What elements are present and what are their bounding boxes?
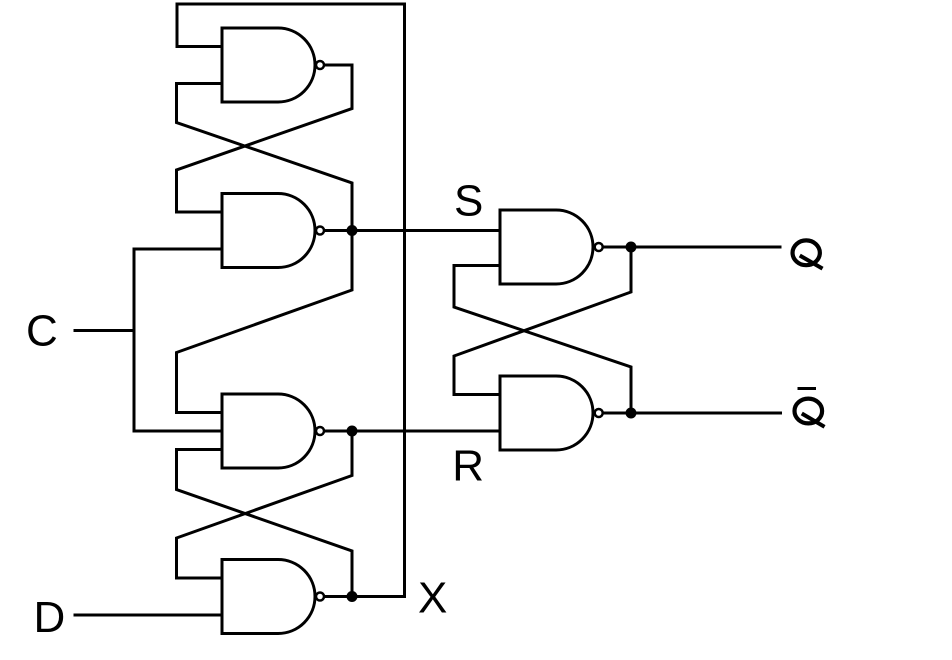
svg-text:D: D [34, 593, 66, 642]
svg-text:R: R [452, 442, 484, 491]
svg-text:S: S [454, 177, 483, 226]
svg-text:C: C [26, 307, 58, 356]
svg-text:X: X [418, 574, 447, 623]
